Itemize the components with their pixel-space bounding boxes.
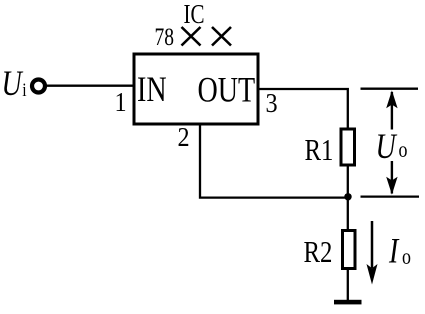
svg-text:o: o xyxy=(402,245,411,270)
resistor R2 xyxy=(343,231,356,269)
wire R2 to ground xyxy=(347,268,349,300)
label Ui xyxy=(2,63,27,103)
node junction dot xyxy=(344,193,351,200)
svg-text:IN: IN xyxy=(137,69,167,109)
svg-text:OUT: OUT xyxy=(198,69,256,109)
ground xyxy=(334,300,362,305)
svg-text:i: i xyxy=(22,80,27,100)
label Io xyxy=(388,230,411,270)
terminal Ui xyxy=(32,80,45,93)
resistor R1 xyxy=(341,129,355,165)
wire node to R2 xyxy=(347,197,349,231)
svg-text:IC: IC xyxy=(184,0,205,30)
Io current arrow xyxy=(367,221,378,285)
op-amp U1 : IC 78xx regulator box xyxy=(134,54,258,124)
label Uo xyxy=(376,125,408,165)
wire pin 2 down and right to node xyxy=(200,124,348,198)
wire R1 to node xyxy=(347,165,349,197)
svg-text:U: U xyxy=(376,125,399,165)
svg-text:78: 78 xyxy=(155,23,174,51)
value label 78×× xyxy=(155,23,232,51)
svg-text:1: 1 xyxy=(115,87,127,118)
svg-text:3: 3 xyxy=(266,88,278,119)
wire OUT to R1 xyxy=(258,89,348,129)
svg-text:U: U xyxy=(2,63,25,103)
wire input to pin 1 xyxy=(46,84,134,86)
svg-text:R1: R1 xyxy=(305,133,334,167)
Uo measurement arrow xyxy=(386,90,397,194)
svg-text:2: 2 xyxy=(178,122,190,153)
svg-text:I: I xyxy=(388,230,399,270)
svg-text:R2: R2 xyxy=(304,235,333,269)
Uo bottom reference line xyxy=(361,195,420,197)
Uo top reference line xyxy=(361,88,419,90)
svg-text:o: o xyxy=(399,138,408,163)
